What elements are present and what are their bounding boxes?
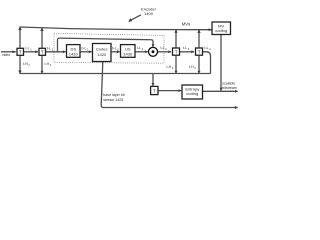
svg-text:Codec: Codec [96,47,108,52]
svg-text:t-L: t-L [161,46,165,50]
svg-text:T: T [41,50,44,55]
svg-text:base layer bit: base layer bit [103,93,124,97]
svg-text:1410: 1410 [69,52,79,57]
svg-text:t-L: t-L [137,46,141,50]
svg-text:coding: coding [215,28,227,33]
svg-text:t-L: t-L [47,46,51,50]
svg-text:bitstream: bitstream [222,86,236,90]
svg-text:T: T [153,89,156,94]
svg-text:T: T [175,49,178,54]
svg-text:1400: 1400 [144,11,154,16]
svg-text:T: T [19,50,22,55]
svg-text:T: T [198,49,201,54]
svg-text:t-L: t-L [26,46,30,50]
svg-text:scalable: scalable [222,81,235,85]
svg-text:MVs: MVs [182,21,190,26]
svg-text:coding: coding [186,91,198,96]
svg-text:1420: 1420 [97,52,107,57]
svg-text:stream 1425: stream 1425 [103,98,123,102]
svg-text:1430: 1430 [123,52,133,57]
svg-text:t-L: t-L [183,46,187,50]
svg-text:t-L: t-L [205,46,209,50]
svg-text:video: video [2,53,10,57]
